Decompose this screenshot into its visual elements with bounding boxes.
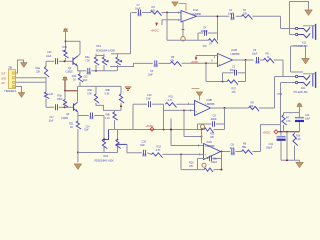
svg-text:IC2A: IC2A	[207, 140, 213, 144]
svg-text:R13: R13	[157, 145, 162, 149]
svg-text:4.7K: 4.7K	[286, 119, 291, 123]
svg-text:GND: GND	[1, 77, 6, 80]
svg-text:R12: R12	[169, 94, 174, 98]
svg-text:47K: 47K	[203, 44, 208, 48]
svg-text:LM4558: LM4558	[206, 102, 215, 106]
svg-text:100pF: 100pF	[211, 161, 218, 164]
svg-text:56K: 56K	[62, 49, 67, 53]
svg-text:IC2B: IC2B	[207, 98, 213, 102]
svg-text:47K: 47K	[170, 59, 175, 63]
svg-text:47K: 47K	[189, 164, 194, 168]
svg-text:10uF: 10uF	[135, 7, 141, 11]
svg-text:R17: R17	[232, 86, 237, 90]
svg-text:J3B: J3B	[8, 65, 12, 69]
svg-text:1500: 1500	[57, 97, 63, 101]
svg-text:PH2: PH2	[278, 92, 283, 96]
svg-text:R8b: R8b	[106, 112, 111, 116]
svg-text:C13: C13	[269, 142, 274, 146]
svg-text:1K: 1K	[209, 42, 212, 46]
svg-text:4.7K: 4.7K	[168, 98, 173, 102]
svg-text:1.1K: 1.1K	[105, 116, 110, 120]
svg-text:+9V: +9V	[1, 82, 5, 85]
svg-text:RV2: RV2	[104, 154, 109, 158]
svg-text:R1b: R1b	[58, 94, 63, 98]
svg-text:R3d: R3d	[88, 88, 93, 92]
svg-text:R3a: R3a	[85, 55, 90, 59]
svg-text:3.3K: 3.3K	[87, 92, 92, 96]
svg-text:OUT: OUT	[1, 72, 6, 75]
svg-text:100pF: 100pF	[230, 69, 237, 72]
svg-text:R21: R21	[69, 121, 74, 125]
svg-text:RDS(S)-B4-1-A20K: RDS(S)-B4-1-A20K	[95, 158, 115, 162]
svg-text:RV1: RV1	[97, 44, 102, 48]
svg-text:10uF: 10uF	[49, 120, 55, 123]
svg-text:10uF: 10uF	[83, 79, 88, 82]
svg-text:10uF: 10uF	[140, 144, 145, 147]
svg-text:R2a: R2a	[36, 66, 41, 70]
svg-text:10uF: 10uF	[148, 74, 153, 77]
svg-text:1K: 1K	[267, 55, 270, 59]
svg-text:1000pF: 1000pF	[201, 30, 209, 33]
svg-text:100pF: 100pF	[211, 118, 218, 121]
svg-text:47K: 47K	[232, 90, 237, 94]
svg-text:10uF: 10uF	[230, 147, 235, 150]
svg-text:+9VDC: +9VDC	[263, 131, 271, 135]
svg-text:1K: 1K	[70, 125, 73, 129]
svg-text:10uF: 10uF	[252, 52, 258, 56]
svg-text:22K: 22K	[36, 70, 41, 74]
svg-text:5.1K: 5.1K	[296, 137, 301, 141]
svg-text:10uF: 10uF	[46, 54, 52, 58]
svg-text:10K: 10K	[250, 105, 254, 108]
svg-text:5.1K: 5.1K	[105, 92, 110, 96]
svg-text:C16: C16	[142, 139, 147, 143]
svg-text:IC1B: IC1B	[232, 48, 238, 52]
svg-text:1K: 1K	[73, 78, 76, 82]
svg-text:PH-JACK-SM: PH-JACK-SM	[294, 90, 308, 94]
svg-text:2.2K: 2.2K	[49, 92, 54, 96]
svg-text:+9VDC: +9VDC	[191, 60, 199, 64]
svg-text:R16: R16	[63, 45, 68, 49]
svg-text:56E: 56E	[242, 145, 247, 149]
svg-text:10uF: 10uF	[84, 129, 89, 132]
svg-text:LM4558: LM4558	[192, 12, 201, 16]
svg-text:IC1A: IC1A	[193, 8, 199, 12]
svg-text:100uF: 100uF	[266, 147, 273, 150]
svg-text:10uF: 10uF	[146, 97, 151, 100]
svg-text:HEADER 4: HEADER 4	[5, 89, 17, 93]
svg-text:C1815: C1815	[66, 70, 74, 74]
svg-text:10K: 10K	[243, 12, 248, 16]
svg-text:+9VDC: +9VDC	[151, 28, 159, 32]
svg-text:10uF: 10uF	[228, 12, 234, 16]
svg-text:10uF: 10uF	[305, 117, 311, 121]
svg-text:R6b: R6b	[106, 88, 111, 92]
svg-text:4.7K: 4.7K	[156, 148, 161, 152]
svg-text:RDS(S)-B4-1-A20K: RDS(S)-B4-1-A20K	[96, 48, 116, 52]
svg-text:LM4558: LM4558	[206, 144, 215, 148]
svg-text:47K: 47K	[210, 135, 215, 139]
svg-text:R10: R10	[189, 160, 194, 164]
svg-text:LM4558: LM4558	[231, 52, 240, 56]
svg-text:C10: C10	[47, 50, 52, 54]
svg-text:C1815: C1815	[61, 116, 69, 120]
svg-text:7.2K: 7.2K	[85, 59, 90, 63]
svg-text:+9VDC: +9VDC	[146, 124, 154, 128]
svg-text:C13: C13	[147, 93, 152, 97]
svg-text:4.7K: 4.7K	[151, 8, 156, 12]
